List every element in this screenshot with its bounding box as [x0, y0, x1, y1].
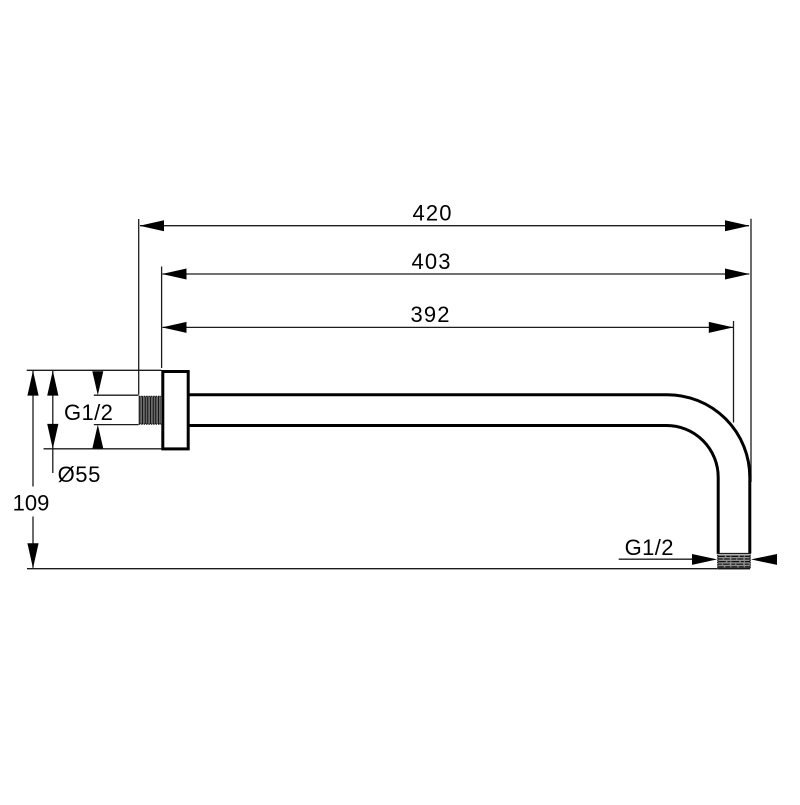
svg-text:403: 403 — [411, 249, 451, 274]
extension line thread bottom — [94, 424, 139, 426]
dimension line 109 lower segment — [32, 517, 34, 568]
arrow left 392 — [162, 322, 187, 333]
extension line thread top — [94, 394, 139, 396]
svg-text:420: 420 — [412, 201, 452, 226]
extension line left 403-392 — [161, 267, 163, 369]
svg-text:Ø55: Ø55 — [58, 462, 101, 487]
flange — [163, 372, 188, 449]
svg-text:392: 392 — [410, 302, 450, 327]
arrow G1/2 outlet left — [692, 554, 717, 565]
pipe inner edge — [190, 426, 719, 554]
arrow G1/2 wall thread lower — [92, 425, 103, 449]
dimension line 420 — [140, 225, 749, 227]
outlet thread hatch — [718, 555, 751, 569]
arrow top 109 — [27, 371, 38, 396]
arrow bottom d55 — [47, 424, 58, 449]
arrow left 420 — [140, 220, 165, 231]
dimension line 392 — [163, 326, 734, 328]
pipe end cap line — [717, 553, 751, 555]
svg-text:109: 109 — [13, 491, 50, 516]
extension line right 420-403 — [750, 219, 752, 482]
arrow bottom 109 — [27, 543, 38, 568]
arrow top d55 — [47, 371, 58, 396]
arrow left 403 — [162, 269, 187, 280]
arrow right 392 — [709, 322, 734, 333]
dimension line diameter 55 — [52, 371, 54, 473]
svg-text:G1/2: G1/2 — [625, 535, 674, 560]
pipe outer edge — [190, 395, 750, 554]
extension line flange bottom — [44, 448, 162, 450]
arrow G1/2 wall thread upper — [92, 371, 103, 395]
dimension line 109 upper segment — [32, 371, 34, 487]
arrow right 403 — [725, 269, 750, 280]
extension line left 420 — [138, 219, 140, 395]
arrow G1/2 outlet right — [751, 554, 777, 565]
extension line right 392 — [733, 321, 735, 423]
arrow right 420 — [725, 220, 750, 231]
wall thread nipple hatch — [139, 396, 162, 424]
dimension line G1/2 outlet left — [619, 558, 693, 560]
svg-text:G1/2: G1/2 — [64, 400, 113, 425]
dimension line 403 — [163, 273, 750, 275]
bottom reference line — [27, 568, 750, 570]
extension line flange top — [27, 369, 162, 371]
